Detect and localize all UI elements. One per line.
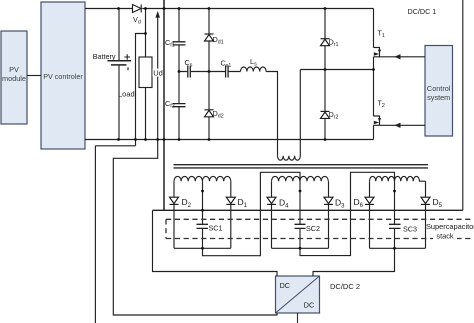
svg-text:Battery: Battery [93, 52, 116, 61]
svg-text:DC: DC [280, 281, 290, 290]
svg-text:Control: Control [427, 84, 451, 93]
svg-text:Ud: Ud [153, 69, 163, 78]
svg-text:module: module [2, 74, 26, 83]
svg-text:stack: stack [436, 232, 454, 241]
svg-text:DC/DC 2: DC/DC 2 [330, 282, 360, 291]
svg-text:SC2: SC2 [306, 224, 320, 233]
svg-text:Load: Load [118, 90, 135, 99]
svg-text:PV: PV [9, 65, 19, 74]
svg-text:SC3: SC3 [403, 225, 417, 234]
svg-text:PV controler: PV controler [43, 72, 83, 81]
svg-text:system: system [427, 93, 450, 102]
svg-text:Supercapacitor: Supercapacitor [426, 222, 474, 231]
svg-text:DC/DC 1: DC/DC 1 [408, 7, 437, 16]
svg-text:DC: DC [304, 301, 314, 310]
svg-text:SC1: SC1 [209, 224, 223, 233]
